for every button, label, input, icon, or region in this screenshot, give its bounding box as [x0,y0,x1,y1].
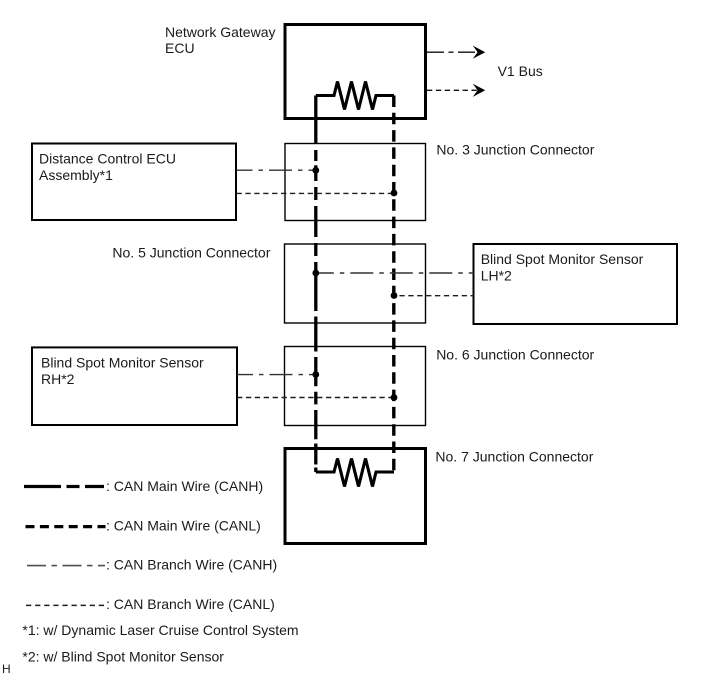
node D (CANL junction in J5) [391,292,398,299]
svg-text:: CAN Main Wire (CANL): : CAN Main Wire (CANL) [106,518,261,534]
wire CANH branch row3 (Blind Spot Monitor Sensor RH to node E) [237,374,316,376]
wire CANL branch row1 (Distance Control ECU to node B) [237,192,395,194]
svg-text:RH*2: RH*2 [41,371,75,387]
resistor R1 (termination in Network Gateway ECU) [316,82,394,110]
svg-text:Network Gateway: Network Gateway [165,24,275,40]
legend CAN Main Wire (CANL) sample [26,525,106,528]
wire V1 bus CANL arrow [427,89,477,91]
svg-text:No. 7 Junction Connector: No. 7 Junction Connector [435,449,593,465]
legend CAN Main Wire (CANH) sample [24,485,104,488]
junction connector J7 box (No. 7 Junction Connector) [285,449,426,544]
svg-text:: CAN Branch Wire (CANH): : CAN Branch Wire (CANH) [106,556,277,572]
node E (CANH junction in J6) [312,371,319,378]
sensor U4 box (Blind Spot Monitor Sensor RH) [32,347,237,425]
wire CANL branch row2 (node D to Blind Spot Monitor Sensor LH) [394,295,474,297]
svg-text:*1: w/ Dynamic Laser Cruise Co: *1: w/ Dynamic Laser Cruise Control Syst… [22,622,298,638]
svg-text:*2: w/ Blind Spot Monitor Sens: *2: w/ Blind Spot Monitor Sensor [22,648,224,664]
svg-text:No. 3 Junction Connector: No. 3 Junction Connector [436,142,594,158]
svg-text:LH*2: LH*2 [481,267,512,283]
node A (CANH junction in J3) [312,167,319,174]
svg-text:Blind Spot Monitor Sensor: Blind Spot Monitor Sensor [41,354,204,370]
svg-text:Distance Control ECU: Distance Control ECU [39,151,176,167]
wire CANH branch row2 (node C to Blind Spot Monitor Sensor LH) [316,272,474,274]
junction connector J5 box (No. 5 Junction Connector) [285,244,426,323]
wire CANL branch row3 (Blind Spot Monitor Sensor RH to node F) [237,397,394,399]
node B (CANL junction in J3) [391,190,398,197]
svg-text:V1 Bus: V1 Bus [498,63,543,79]
svg-text:: CAN Main Wire (CANH): : CAN Main Wire (CANH) [106,478,263,494]
wire CANH branch row1 (Distance Control ECU to node A) [237,169,316,171]
ECU U1 box (Network Gateway ECU) [285,25,426,119]
legend CAN Branch Wire (CANL) sample [26,604,106,606]
ECU U2 box (Distance Control ECU Assembly) [32,144,236,221]
junction connector J3 box (No. 3 Junction Connector) [285,144,426,221]
node C (CANH junction in J5) [312,270,319,277]
legend CAN Branch Wire (CANH) sample [27,565,105,567]
wire CANL main vertical [392,96,395,473]
junction connector J6 box (No. 6 Junction Connector) [285,347,426,426]
svg-text:H: H [2,662,11,676]
svg-text:Assembly*1: Assembly*1 [39,167,113,183]
svg-text:No. 5 Junction Connector: No. 5 Junction Connector [112,244,270,260]
wire CANH main vertical (dash-dot segments) [314,96,317,473]
sensor U3 box (Blind Spot Monitor Sensor LH) [474,244,678,324]
resistor R2 (termination in No. 7 Junction Connector) [316,459,394,487]
node F (CANL junction in J6) [391,394,398,401]
svg-text:Blind Spot Monitor Sensor: Blind Spot Monitor Sensor [481,251,644,267]
wire V1 bus CANH arrow [427,51,477,53]
svg-text:ECU: ECU [165,40,195,56]
svg-text:: CAN Branch Wire (CANL): : CAN Branch Wire (CANL) [106,596,275,612]
svg-text:No. 6 Junction Connector: No. 6 Junction Connector [436,347,594,363]
